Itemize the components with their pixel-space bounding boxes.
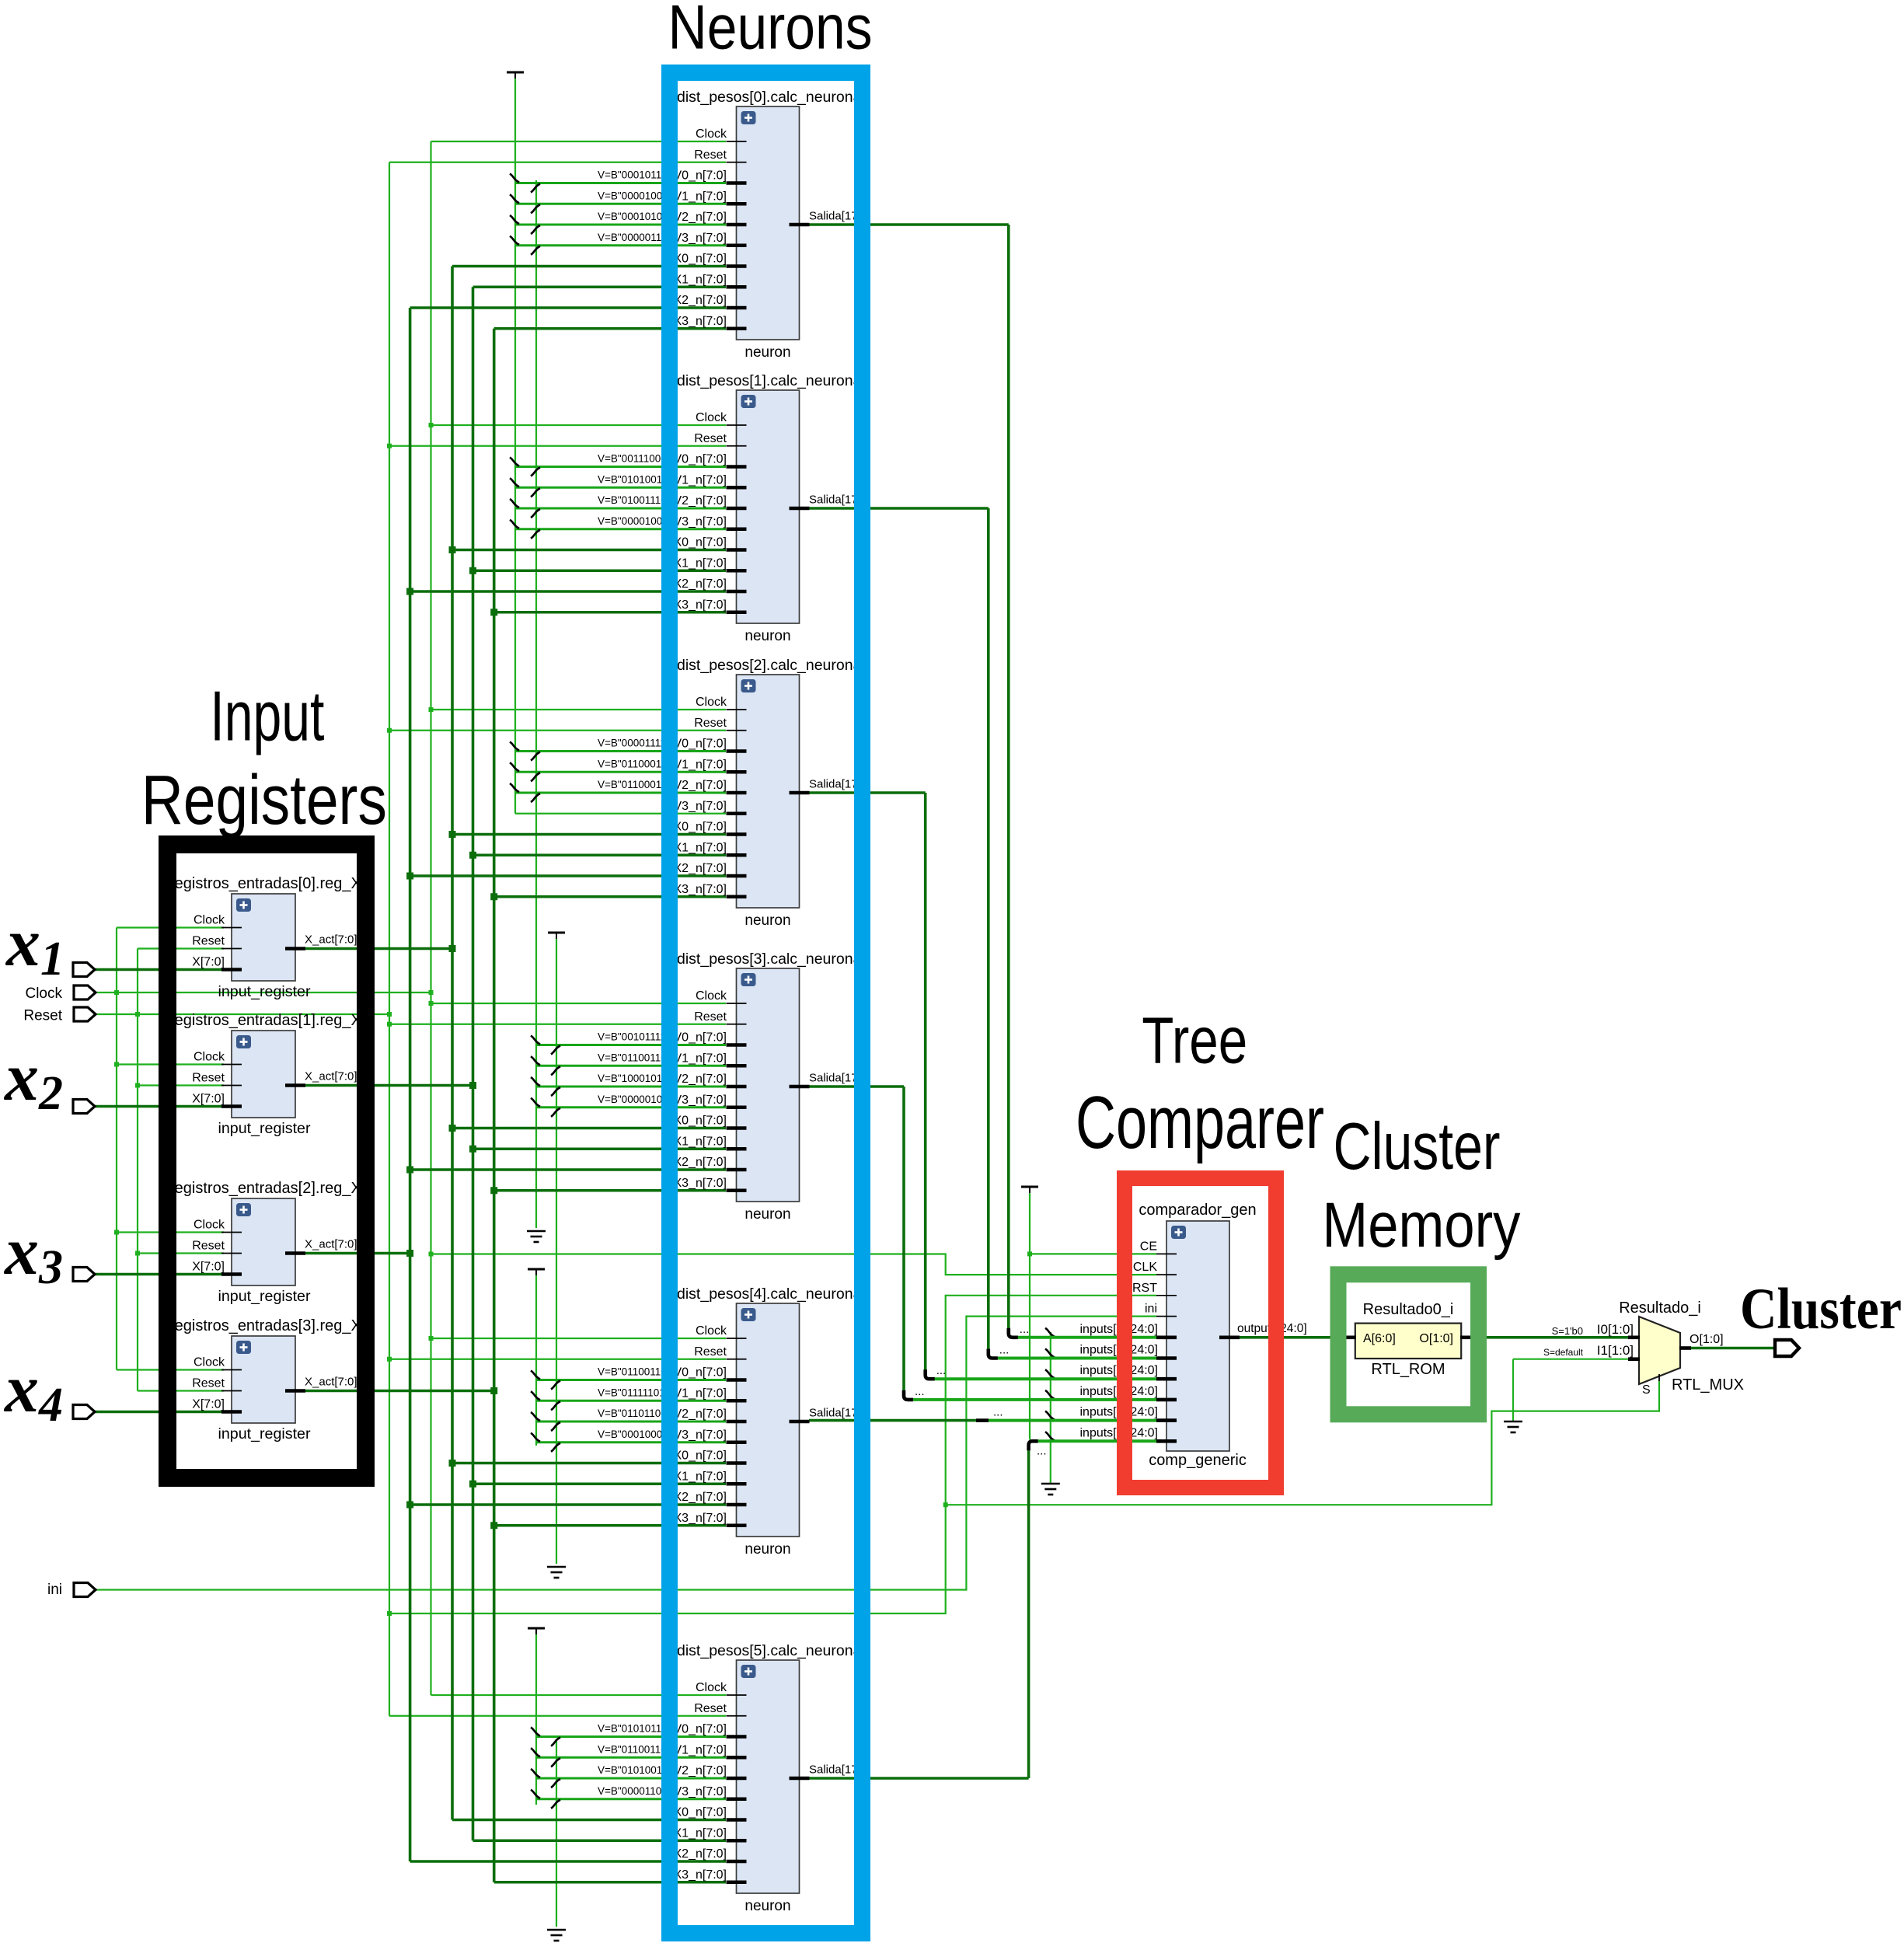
svg-text:X1_n[7:0]: X1_n[7:0] <box>674 273 727 286</box>
comparator block comp_generic (comparador_gen) <box>1079 1221 1306 1451</box>
value label V=B"01111101" for neuron 4 V1_n <box>598 1387 669 1398</box>
instance label registros_entradas[0].reg_X <box>169 875 371 892</box>
svg-text:Reset: Reset <box>694 717 727 730</box>
svg-text:V2_n[7:0]: V2_n[7:0] <box>674 494 727 508</box>
svg-text:dist_pesos[2].calc_neurona: dist_pesos[2].calc_neurona <box>677 657 862 674</box>
value label V=B"01010011" for neuron 1 V1_n <box>598 473 671 485</box>
wire Salida neuron 3 down to comparator inputs[3] <box>809 1087 1156 1400</box>
svg-text:X1_n[7:0]: X1_n[7:0] <box>674 556 727 570</box>
svg-text:Reset: Reset <box>192 935 225 948</box>
svg-text:V3_n[7:0]: V3_n[7:0] <box>674 1785 727 1798</box>
svg-text:S=default: S=default <box>1543 1347 1584 1358</box>
ground symbol for comparator rail <box>1041 1484 1060 1495</box>
svg-text:Registers: Registers <box>141 762 387 839</box>
input port x2 <box>73 1100 95 1114</box>
svg-text:Cluster: Cluster <box>1334 1110 1501 1184</box>
wire X_act[3] bus rail from input_register 3 to all neuron X3_n pins <box>305 329 726 1882</box>
svg-text:V3_n[7:0]: V3_n[7:0] <box>674 1094 727 1107</box>
wire ini net: port to comparator ini pin <box>95 1317 1156 1590</box>
svg-text:V=B"00010001": V=B"00010001" <box>598 1428 672 1440</box>
svg-text:V=B"01001110": V=B"01001110" <box>598 494 671 506</box>
port label x4 <box>3 1352 63 1432</box>
wire neuron 2 V3_n constant (all zero, thin) <box>515 813 726 815</box>
svg-text:X_act[7:0]: X_act[7:0] <box>305 1238 357 1251</box>
value label V=B"01100010" for neuron 2 V1_n <box>598 758 671 769</box>
partial-bus dots label inputs[3] <box>915 1385 925 1398</box>
title Neurons <box>668 0 873 63</box>
svg-text:neuron: neuron <box>745 628 790 644</box>
svg-text:X[7:0]: X[7:0] <box>192 1261 225 1274</box>
svg-text:...: ... <box>1020 1323 1030 1336</box>
svg-text:dist_pesos[4].calc_neurona: dist_pesos[4].calc_neurona <box>677 1285 862 1303</box>
svg-text:X_act[7:0]: X_act[7:0] <box>305 1376 357 1389</box>
wire neuron 3 V1_n constant bus <box>531 1056 726 1075</box>
svg-text:Reset: Reset <box>694 1010 727 1024</box>
wire neuron 4 V2_n constant bus <box>531 1412 726 1431</box>
wire neuron 0 V3_n constant bus <box>510 236 726 255</box>
port label x2 <box>3 1040 63 1120</box>
svg-text:V2_n[7:0]: V2_n[7:0] <box>674 1764 727 1777</box>
svg-text:Clock: Clock <box>194 1356 225 1369</box>
input port x3 <box>73 1268 95 1282</box>
svg-text:...: ... <box>936 1364 947 1377</box>
svg-text:X3_n[7:0]: X3_n[7:0] <box>674 1177 727 1190</box>
svg-text:...: ... <box>915 1385 925 1398</box>
svg-text:ini: ini <box>1145 1303 1157 1316</box>
wire MUX I1 ground tie <box>1513 1359 1628 1421</box>
svg-text:V2_n[7:0]: V2_n[7:0] <box>674 779 727 792</box>
value label V=B"00010100" for neuron 0 V2_n <box>598 211 672 222</box>
neuron block 1 <box>674 390 871 623</box>
svg-text:X3_n[7:0]: X3_n[7:0] <box>674 1868 727 1882</box>
neuron block 5 <box>674 1660 871 1893</box>
instance label Resultado0_i <box>1363 1301 1454 1318</box>
svg-text:V=B"00000110": V=B"00000110" <box>598 232 671 243</box>
constant rail A with T symbol (neurons 0-2 weights) <box>507 72 524 814</box>
svg-text:V=B"01101100": V=B"01101100" <box>598 1408 671 1419</box>
wire comparator outputs bus to RTL_ROM address <box>1240 1336 1345 1339</box>
type label input_register 1 <box>218 1121 312 1137</box>
svg-text:X0_n[7:0]: X0_n[7:0] <box>674 1806 727 1819</box>
value label V=B"00001001" for neuron 0 V1_n <box>598 190 672 201</box>
svg-text:...: ... <box>993 1406 1003 1419</box>
svg-text:S: S <box>1642 1383 1651 1397</box>
svg-text:X2_n[7:0]: X2_n[7:0] <box>674 1491 727 1504</box>
neuron block 0 <box>674 106 871 340</box>
svg-text:X3_n[7:0]: X3_n[7:0] <box>674 315 727 328</box>
constant rail B3 with T (neuron 5 weights) <box>528 1628 545 1805</box>
svg-text:V=B"00101111": V=B"00101111" <box>598 1031 670 1043</box>
instance label dist_pesos[3].calc_neurona <box>677 951 862 968</box>
constant rail B2 with T (neuron 4 weights) <box>528 1269 545 1446</box>
input_register block 3 <box>192 1336 357 1423</box>
svg-text:...: ... <box>999 1344 1010 1357</box>
wire neuron 4 V3_n constant bus <box>531 1433 726 1452</box>
svg-text:V3_n[7:0]: V3_n[7:0] <box>674 800 727 813</box>
partial-bus dots label inputs[0] <box>1020 1323 1030 1336</box>
input port Clock <box>74 985 96 999</box>
port label x3 <box>3 1214 63 1294</box>
svg-text:X0_n[7:0]: X0_n[7:0] <box>674 536 727 549</box>
svg-text:registros_entradas[3].reg_X_: registros_entradas[3].reg_X_ <box>169 1317 371 1334</box>
svg-text:Clock: Clock <box>696 696 727 709</box>
value label V=B"00010001" for neuron 4 V3_n <box>598 1428 672 1440</box>
svg-text:X[7:0]: X[7:0] <box>192 956 225 969</box>
svg-text:Clock: Clock <box>696 989 727 1003</box>
svg-text:Clock: Clock <box>194 1219 225 1232</box>
svg-text:X1_n[7:0]: X1_n[7:0] <box>674 1470 727 1483</box>
svg-text:V1_n[7:0]: V1_n[7:0] <box>674 758 727 771</box>
wire neuron 1 V2_n constant bus <box>510 499 726 518</box>
title Input Registers <box>141 678 387 840</box>
instance label dist_pesos[5].calc_neurona <box>677 1642 862 1659</box>
svg-text:V1_n[7:0]: V1_n[7:0] <box>674 1052 727 1065</box>
value label V=B"01100010" for neuron 2 V2_n <box>598 779 671 790</box>
wire neuron 0 V1_n constant bus <box>510 194 726 213</box>
svg-text:A[6:0]: A[6:0] <box>1363 1332 1396 1345</box>
wire Salida neuron 4 to comparator inputs[4] <box>809 1419 1156 1422</box>
wire neuron 3 V3_n constant bus <box>531 1098 726 1117</box>
input port ini <box>74 1583 96 1597</box>
instance label registros_entradas[3].reg_X <box>169 1317 371 1334</box>
svg-text:V0_n[7:0]: V0_n[7:0] <box>674 1723 727 1736</box>
wire X_act[2] bus rail from input_register 2 to all neuron X2_n pins <box>305 308 726 1861</box>
wire MUX output O to Cluster port <box>1690 1347 1775 1350</box>
svg-text:Reset: Reset <box>23 1008 62 1024</box>
svg-text:V0_n[7:0]: V0_n[7:0] <box>674 169 727 183</box>
wire neuron 5 V1_n constant bus <box>531 1748 726 1767</box>
svg-text:I1[1:0]: I1[1:0] <box>1597 1343 1634 1358</box>
svg-text:Clock: Clock <box>696 411 727 424</box>
svg-text:V1_n[7:0]: V1_n[7:0] <box>674 1743 727 1756</box>
svg-text:neuron: neuron <box>745 344 790 361</box>
output port Cluster <box>1775 1340 1799 1356</box>
svg-text:V3_n[7:0]: V3_n[7:0] <box>674 232 727 245</box>
svg-text:V=B"01010011": V=B"01010011" <box>598 473 671 485</box>
svg-text:Cluster: Cluster <box>1740 1277 1902 1341</box>
type label neuron 1 <box>745 628 790 644</box>
svg-text:O[1:0]: O[1:0] <box>1419 1332 1453 1345</box>
svg-text:V=B"01100110": V=B"01100110" <box>598 1052 671 1063</box>
value label V=B"01100110" for neuron 3 V1_n <box>598 1052 671 1063</box>
svg-text:X2_n[7:0]: X2_n[7:0] <box>674 294 727 307</box>
wire Clock net: port to register/neuron rails <box>95 141 1156 1695</box>
svg-text:V=B"01111101": V=B"01111101" <box>598 1387 669 1398</box>
wire Salida neuron 2 down to comparator inputs[2] <box>809 793 1156 1379</box>
type label neuron 0 <box>745 344 790 361</box>
value label V=B"00111000" for neuron 1 V0_n <box>598 453 671 465</box>
svg-text:V=B"01100010": V=B"01100010" <box>598 779 671 790</box>
svg-text:V0_n[7:0]: V0_n[7:0] <box>674 738 727 751</box>
svg-text:input_register: input_register <box>218 1426 312 1442</box>
svg-text:Memory: Memory <box>1322 1190 1520 1261</box>
wire Salida neuron 1 down to comparator inputs[1] <box>809 508 1156 1359</box>
svg-text:input_register: input_register <box>218 1289 312 1305</box>
type label RTL_MUX <box>1672 1376 1744 1394</box>
value label V=B"00010111" for neuron 0 V0_n <box>598 169 671 181</box>
svg-text:Reset: Reset <box>192 1240 225 1253</box>
type label neuron 3 <box>745 1206 790 1223</box>
wire x4 input bus to register 3 <box>95 1411 224 1414</box>
wire comparator inputs ground rail <box>1045 1328 1055 1484</box>
svg-text:X0_n[7:0]: X0_n[7:0] <box>674 1449 727 1463</box>
svg-text:V2_n[7:0]: V2_n[7:0] <box>674 1073 727 1086</box>
svg-text:V=B"01100110": V=B"01100110" <box>598 1743 671 1755</box>
svg-text:X[7:0]: X[7:0] <box>192 1093 225 1106</box>
input port x1 <box>73 963 95 977</box>
svg-text:CLK: CLK <box>1133 1261 1157 1274</box>
svg-text:V=B"00010100": V=B"00010100" <box>598 211 672 222</box>
neuron block 4 <box>674 1303 871 1537</box>
svg-text:V1_n[7:0]: V1_n[7:0] <box>674 190 727 203</box>
svg-text:X_act[7:0]: X_act[7:0] <box>305 933 357 947</box>
svg-text:V1_n[7:0]: V1_n[7:0] <box>674 1387 727 1400</box>
svg-text:RST: RST <box>1132 1282 1157 1295</box>
type label RTL_ROM <box>1371 1361 1445 1378</box>
svg-text:Reset: Reset <box>694 148 727 162</box>
wire neuron 2 V1_n constant bus <box>510 762 726 781</box>
svg-text:X1_n[7:0]: X1_n[7:0] <box>674 841 727 854</box>
value label V=B"00001111" for neuron 2 V0_n <box>598 738 670 749</box>
type label neuron 5 <box>745 1898 790 1914</box>
wire neuron 3 V2_n constant bus <box>531 1077 726 1096</box>
value label V=B"01100110" for neuron 5 V1_n <box>598 1743 671 1755</box>
svg-text:V=B"00001101": V=B"00001101" <box>598 1785 671 1797</box>
svg-text:neuron: neuron <box>745 1541 790 1558</box>
svg-text:X1_n[7:0]: X1_n[7:0] <box>674 1135 727 1148</box>
svg-text:Reset: Reset <box>694 432 727 445</box>
svg-text:X1_n[7:0]: X1_n[7:0] <box>674 1826 727 1840</box>
input port Reset <box>74 1007 96 1021</box>
svg-text:V1_n[7:0]: V1_n[7:0] <box>674 473 727 487</box>
port label x1 <box>5 905 65 985</box>
svg-text:Resultado0_i: Resultado0_i <box>1363 1301 1454 1318</box>
type label input_register 2 <box>218 1289 312 1305</box>
svg-text:Clock: Clock <box>25 985 62 1002</box>
annotation rectangle Input Registers (black) <box>168 845 366 1478</box>
input port x4 <box>73 1405 95 1419</box>
value label V=B"00001101" for neuron 5 V3_n <box>598 1785 671 1797</box>
type label input_register 3 <box>218 1426 312 1442</box>
wire neuron 1 V0_n constant bus <box>510 458 726 476</box>
instance label registros_entradas[1].reg_X <box>169 1012 371 1029</box>
input_register block 1 <box>192 1031 357 1118</box>
value label V=B"10001011" for neuron 3 V2_n <box>598 1073 671 1084</box>
svg-text:V3_n[7:0]: V3_n[7:0] <box>674 515 727 528</box>
partial-bus dots label inputs[2] <box>936 1364 947 1377</box>
annotation rectangle Tree Comparer (red) <box>1125 1178 1276 1488</box>
svg-text:V3_n[7:0]: V3_n[7:0] <box>674 1428 727 1442</box>
wire x3 input bus to register 2 <box>95 1273 224 1276</box>
wire CE tie-off rail with T symbol <box>1021 1187 1156 1441</box>
svg-text:Clock: Clock <box>696 127 727 141</box>
wire neuron 5 V3_n constant bus <box>531 1790 726 1809</box>
value label V=B"01001110" for neuron 1 V2_n <box>598 494 671 506</box>
svg-text:comp_generic: comp_generic <box>1149 1452 1247 1469</box>
svg-text:Clock: Clock <box>696 1681 727 1694</box>
input_register block 2 <box>192 1198 357 1285</box>
wire neuron 0 V0_n constant bus <box>510 174 726 193</box>
svg-text:Neurons: Neurons <box>668 0 873 63</box>
svg-text:Reset: Reset <box>694 1345 727 1359</box>
svg-text:Input: Input <box>210 678 324 756</box>
svg-text:X3_n[7:0]: X3_n[7:0] <box>674 598 727 612</box>
svg-text:X0_n[7:0]: X0_n[7:0] <box>674 253 727 266</box>
value label V=B"01100110" for neuron 4 V0_n <box>598 1366 671 1378</box>
output net label Cluster <box>1740 1277 1902 1341</box>
wire neuron 1 V1_n constant bus <box>510 478 726 497</box>
svg-text:X2_n[7:0]: X2_n[7:0] <box>674 577 727 591</box>
svg-text:Reset: Reset <box>192 1377 225 1390</box>
constant rail C1 with T and ground (neurons 3-4 weights) <box>547 933 566 1578</box>
svg-text:Resultado_i: Resultado_i <box>1619 1299 1701 1317</box>
input_register block 0 <box>192 894 357 981</box>
wire neuron 5 V0_n constant bus <box>531 1728 726 1746</box>
instance label dist_pesos[2].calc_neurona <box>677 657 862 674</box>
wire neuron 3 V0_n constant bus <box>531 1036 726 1055</box>
svg-text:CE: CE <box>1140 1240 1157 1253</box>
constant rail B1 with ground (neurons 0-3 weights) <box>527 180 546 1242</box>
wire Reset net: port to register/neuron rails and comparator RST <box>95 162 1156 1716</box>
svg-text:V2_n[7:0]: V2_n[7:0] <box>674 1408 727 1421</box>
svg-text:V=B"00000100": V=B"00000100" <box>598 1094 672 1105</box>
value label V=B"00000110" for neuron 0 V3_n <box>598 232 671 243</box>
svg-text:neuron: neuron <box>745 1898 790 1914</box>
wire neuron 5 V2_n constant bus <box>531 1769 726 1788</box>
svg-text:X2_n[7:0]: X2_n[7:0] <box>674 862 727 875</box>
annotation rectangle Cluster Memory (green) <box>1338 1275 1479 1415</box>
wire x2 input bus to register 1 <box>95 1105 224 1108</box>
svg-text:V=B"01100110": V=B"01100110" <box>598 1366 671 1378</box>
port label Reset <box>23 1008 62 1024</box>
wire RTL_ROM output to MUX I0 <box>1471 1336 1628 1339</box>
instance label comparador_gen <box>1139 1202 1256 1219</box>
type label comp_generic <box>1149 1452 1247 1469</box>
svg-text:dist_pesos[5].calc_neurona: dist_pesos[5].calc_neurona <box>677 1642 862 1659</box>
svg-text:V=B"00001001": V=B"00001001" <box>598 515 672 527</box>
svg-text:X0_n[7:0]: X0_n[7:0] <box>674 821 727 834</box>
svg-text:V0_n[7:0]: V0_n[7:0] <box>674 1031 727 1045</box>
type label neuron 4 <box>745 1541 790 1558</box>
wire neuron 0 V2_n constant bus <box>510 215 726 234</box>
neuron block 3 <box>674 968 871 1202</box>
svg-text:registros_entradas[0].reg_X_: registros_entradas[0].reg_X_ <box>169 875 371 892</box>
constant rail C2 with ground (neuron 5 weights) <box>547 1739 566 1941</box>
value label V=B"00101111" for neuron 3 V0_n <box>598 1031 670 1043</box>
type label input_register 0 <box>218 984 312 1000</box>
svg-text:neuron: neuron <box>745 912 790 929</box>
svg-text:input_register: input_register <box>218 1121 312 1137</box>
svg-text:V=B"00010111": V=B"00010111" <box>598 169 671 181</box>
svg-text:dist_pesos[1].calc_neurona: dist_pesos[1].calc_neurona <box>677 372 862 389</box>
svg-text:V0_n[7:0]: V0_n[7:0] <box>674 453 727 466</box>
port label Clock <box>25 985 62 1002</box>
svg-text:input_register: input_register <box>218 984 312 1000</box>
svg-text:registros_entradas[1].reg_X_: registros_entradas[1].reg_X_ <box>169 1012 371 1029</box>
svg-text:Reset: Reset <box>694 1702 727 1715</box>
wire X_act[1] bus rail from input_register 1 to all neuron X1_n pins <box>305 287 726 1840</box>
instance label registros_entradas[2].reg_X <box>169 1180 371 1197</box>
partial-bus dots label inputs[5] <box>1037 1444 1047 1457</box>
neuron block 2 <box>674 675 871 908</box>
instance label dist_pesos[1].calc_neurona <box>677 372 862 389</box>
wire MUX select S net <box>946 1380 1659 1505</box>
wire Salida neuron 5 up to comparator inputs[5] <box>809 1441 1156 1778</box>
wire neuron 1 V3_n constant bus <box>510 520 726 539</box>
wire neuron 4 V1_n constant bus <box>531 1391 726 1410</box>
svg-text:V=B"00001001": V=B"00001001" <box>598 190 672 201</box>
svg-text:Tree: Tree <box>1142 1003 1247 1076</box>
svg-text:Comparer: Comparer <box>1076 1081 1324 1164</box>
svg-text:neuron: neuron <box>745 1206 790 1223</box>
svg-text:X3_n[7:0]: X3_n[7:0] <box>674 883 727 896</box>
title Tree Comparer <box>1076 1003 1324 1164</box>
svg-text:X3_n[7:0]: X3_n[7:0] <box>674 1512 727 1525</box>
value label V=B"00000100" for neuron 3 V3_n <box>598 1094 672 1105</box>
svg-text:V=B"00001111": V=B"00001111" <box>598 738 670 749</box>
svg-text:O[1:0]: O[1:0] <box>1690 1333 1724 1346</box>
value label V=B"01010110" for neuron 5 V0_n <box>598 1723 671 1735</box>
svg-text:X2_n[7:0]: X2_n[7:0] <box>674 1156 727 1169</box>
ground symbol for MUX I1 <box>1504 1421 1522 1432</box>
svg-text:X0_n[7:0]: X0_n[7:0] <box>674 1115 727 1128</box>
value label V=B"01010010" for neuron 5 V2_n <box>598 1764 672 1776</box>
svg-text:I0[1:0]: I0[1:0] <box>1597 1322 1634 1337</box>
svg-text:S=1'b0: S=1'b0 <box>1552 1325 1583 1337</box>
value label V=B"01101100" for neuron 4 V2_n <box>598 1408 671 1419</box>
svg-text:ini: ini <box>47 1582 62 1598</box>
wire Salida neuron 0 down to comparator inputs[0] <box>809 225 1156 1338</box>
svg-text:dist_pesos[3].calc_neurona: dist_pesos[3].calc_neurona <box>677 951 862 968</box>
svg-text:registros_entradas[2].reg_X_: registros_entradas[2].reg_X_ <box>169 1180 371 1197</box>
partial-bus dots label inputs[1] <box>999 1344 1010 1357</box>
svg-text:Clock: Clock <box>696 1324 727 1338</box>
title Cluster Memory <box>1322 1110 1520 1261</box>
svg-text:Clock: Clock <box>194 1051 225 1064</box>
wire neuron 4 V0_n constant bus <box>531 1371 726 1390</box>
svg-text:Clock: Clock <box>194 914 225 927</box>
svg-text:V=B"00111000": V=B"00111000" <box>598 453 671 465</box>
mux block Resultado_i RTL_MUX <box>1543 1317 1724 1397</box>
svg-text:V2_n[7:0]: V2_n[7:0] <box>674 211 727 224</box>
type label neuron 2 <box>745 912 790 929</box>
svg-text:V=B"01010110": V=B"01010110" <box>598 1723 671 1735</box>
instance label Resultado_i <box>1619 1299 1701 1317</box>
ROM block Resultado0_i RTL_ROM <box>1345 1324 1471 1359</box>
svg-text:Reset: Reset <box>192 1072 225 1085</box>
wire neuron 2 V2_n constant bus <box>510 783 726 802</box>
value label V=B"00001001" for neuron 1 V3_n <box>598 515 672 527</box>
svg-text:X_act[7:0]: X_act[7:0] <box>305 1070 357 1083</box>
svg-text:V0_n[7:0]: V0_n[7:0] <box>674 1366 727 1380</box>
svg-text:comparador_gen: comparador_gen <box>1139 1202 1256 1219</box>
instance label dist_pesos[0].calc_neurona <box>677 89 862 106</box>
svg-text:RTL_ROM: RTL_ROM <box>1371 1361 1445 1378</box>
svg-text:X2_n[7:0]: X2_n[7:0] <box>674 1847 727 1861</box>
svg-text:V=B"01100010": V=B"01100010" <box>598 758 671 769</box>
instance label dist_pesos[4].calc_neurona <box>677 1285 862 1303</box>
annotation rectangle Neurons (blue) <box>670 73 863 1934</box>
wire X_act[0] bus rail from input_register 0 to all neuron X0_n pins <box>305 267 726 1820</box>
svg-text:X[7:0]: X[7:0] <box>192 1398 225 1411</box>
svg-text:dist_pesos[0].calc_neurona: dist_pesos[0].calc_neurona <box>677 89 862 106</box>
wire x1 input bus to register 0 <box>95 968 224 971</box>
svg-text:RTL_MUX: RTL_MUX <box>1672 1376 1744 1394</box>
wire neuron 2 V0_n constant bus <box>510 742 726 761</box>
svg-text:V=B"10001011": V=B"10001011" <box>598 1073 671 1084</box>
svg-text:V=B"01010010": V=B"01010010" <box>598 1764 672 1776</box>
svg-text:...: ... <box>1037 1444 1047 1457</box>
